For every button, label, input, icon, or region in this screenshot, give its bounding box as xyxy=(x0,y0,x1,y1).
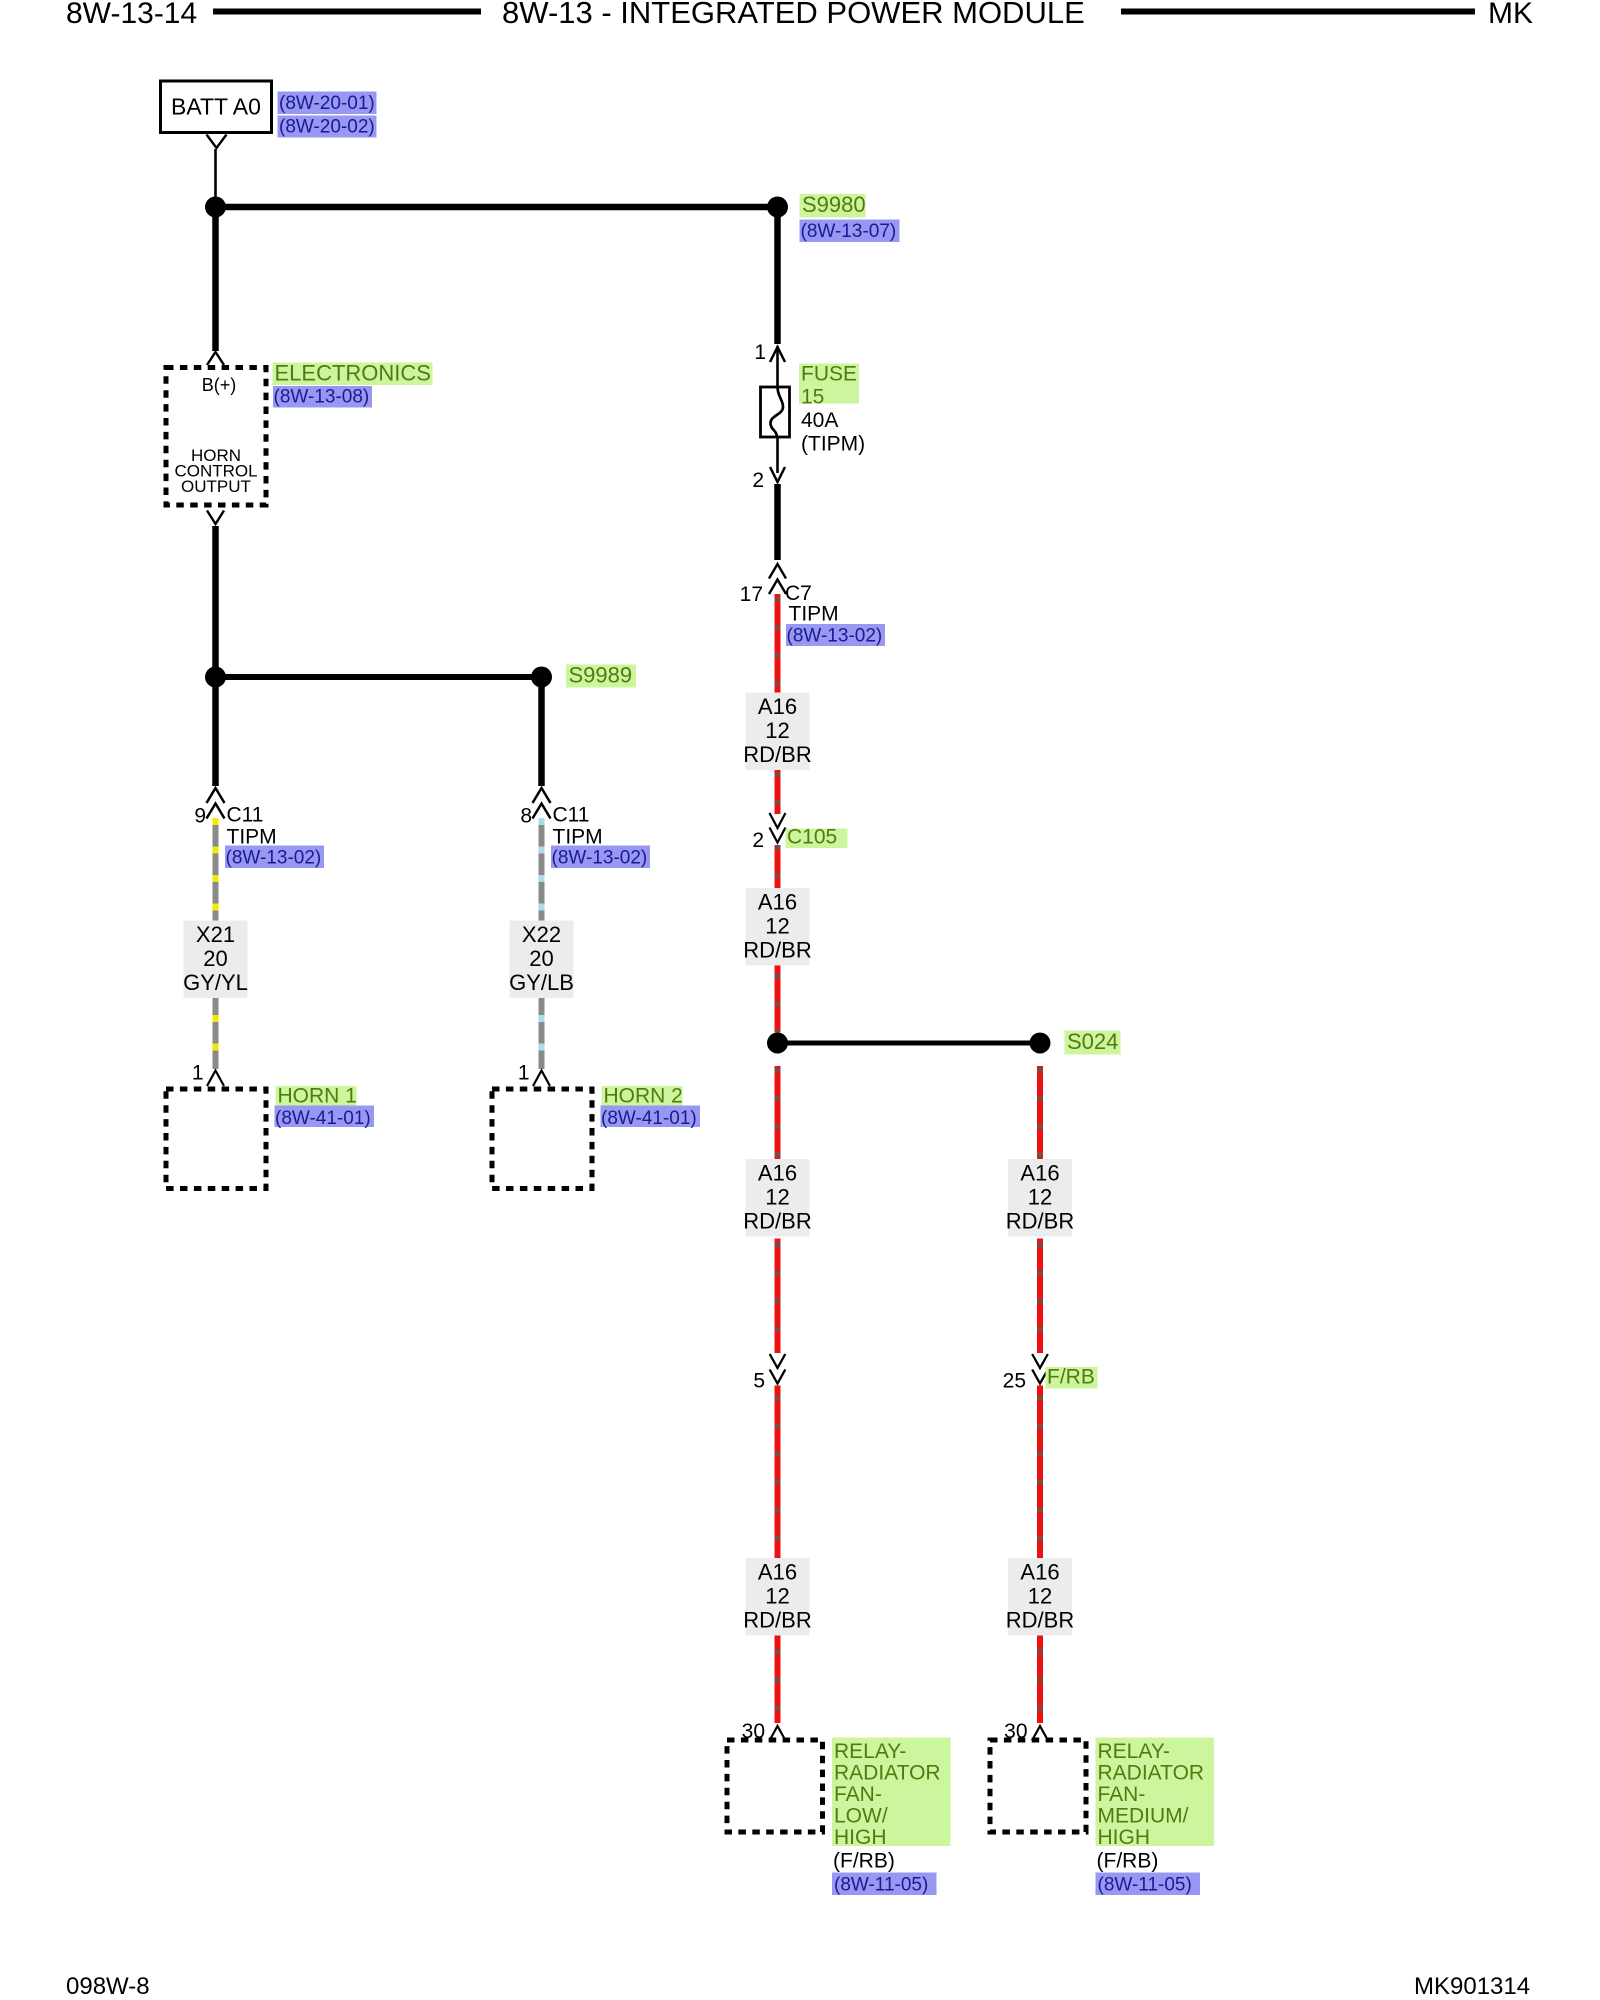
svg-text:A16: A16 xyxy=(758,694,797,719)
svg-text:(8W-41-01): (8W-41-01) xyxy=(601,1108,697,1129)
svg-text:A16: A16 xyxy=(1020,1560,1059,1585)
svg-text:8W-13-14: 8W-13-14 xyxy=(66,0,197,30)
svg-text:HORN 2: HORN 2 xyxy=(604,1085,683,1108)
svg-text:RD/BR: RD/BR xyxy=(743,1608,811,1633)
svg-text:12: 12 xyxy=(765,914,789,939)
svg-text:A16: A16 xyxy=(758,890,797,915)
svg-text:RD/BR: RD/BR xyxy=(1006,1209,1074,1234)
svg-text:12: 12 xyxy=(1028,1185,1052,1210)
svg-text:(F/RB): (F/RB) xyxy=(833,1850,895,1873)
svg-text:20: 20 xyxy=(529,946,553,971)
svg-text:(8W-11-05): (8W-11-05) xyxy=(834,1875,928,1896)
svg-text:F/RB: F/RB xyxy=(1047,1366,1095,1389)
svg-text:(8W-13-02): (8W-13-02) xyxy=(787,626,883,647)
svg-text:40A: 40A xyxy=(801,409,838,432)
svg-text:8W-13 - INTEGRATED POWER MODUL: 8W-13 - INTEGRATED POWER MODULE xyxy=(502,0,1085,30)
svg-text:LOW/: LOW/ xyxy=(834,1805,888,1828)
svg-text:1: 1 xyxy=(518,1062,530,1085)
svg-text:HIGH: HIGH xyxy=(834,1826,887,1849)
svg-text:(TIPM): (TIPM) xyxy=(801,433,865,456)
svg-text:20: 20 xyxy=(203,946,227,971)
svg-text:X22: X22 xyxy=(522,922,561,947)
svg-text:A16: A16 xyxy=(1020,1161,1059,1186)
svg-text:17: 17 xyxy=(740,583,763,606)
svg-text:2: 2 xyxy=(752,829,764,852)
svg-text:15: 15 xyxy=(801,386,824,409)
svg-text:12: 12 xyxy=(1028,1584,1052,1609)
svg-text:X21: X21 xyxy=(196,922,235,947)
svg-text:TIPM: TIPM xyxy=(553,826,603,849)
svg-text:RD/BR: RD/BR xyxy=(743,742,811,767)
svg-text:MK: MK xyxy=(1488,0,1533,30)
svg-text:1: 1 xyxy=(192,1062,204,1085)
svg-text:C105: C105 xyxy=(787,826,837,849)
svg-text:098W-8: 098W-8 xyxy=(66,1973,150,2000)
svg-text:A16: A16 xyxy=(758,1560,797,1585)
svg-text:RADIATOR: RADIATOR xyxy=(1098,1762,1205,1785)
svg-text:ELECTRONICS: ELECTRONICS xyxy=(275,361,431,386)
svg-text:C11: C11 xyxy=(553,804,590,827)
svg-text:(8W-11-05): (8W-11-05) xyxy=(1098,1875,1192,1896)
svg-text:TIPM: TIPM xyxy=(227,826,277,849)
svg-text:MEDIUM/: MEDIUM/ xyxy=(1098,1805,1189,1828)
svg-text:HORN 1: HORN 1 xyxy=(278,1085,357,1108)
svg-text:FAN-: FAN- xyxy=(1098,1783,1146,1806)
svg-text:MK901314: MK901314 xyxy=(1414,1973,1530,2000)
svg-text:RD/BR: RD/BR xyxy=(743,938,811,963)
svg-text:S9989: S9989 xyxy=(569,663,633,688)
svg-text:S9980: S9980 xyxy=(802,192,866,217)
svg-text:2: 2 xyxy=(752,469,764,492)
svg-text:RELAY-: RELAY- xyxy=(1098,1740,1170,1763)
svg-text:B(+): B(+) xyxy=(202,375,237,395)
svg-text:(8W-13-02): (8W-13-02) xyxy=(552,848,648,869)
svg-text:TIPM: TIPM xyxy=(789,603,839,626)
svg-text:(8W-41-01): (8W-41-01) xyxy=(275,1108,371,1129)
svg-text:9: 9 xyxy=(194,805,206,828)
svg-text:RADIATOR: RADIATOR xyxy=(834,1762,941,1785)
svg-text:BATT A0: BATT A0 xyxy=(171,94,261,120)
svg-text:1: 1 xyxy=(754,341,766,364)
svg-text:(8W-20-01): (8W-20-01) xyxy=(279,93,375,114)
svg-text:A16: A16 xyxy=(758,1161,797,1186)
svg-text:RD/BR: RD/BR xyxy=(743,1209,811,1234)
svg-text:C11: C11 xyxy=(227,804,264,827)
svg-text:(8W-13-02): (8W-13-02) xyxy=(226,848,322,869)
svg-text:FAN-: FAN- xyxy=(834,1783,882,1806)
svg-text:GY/YL: GY/YL xyxy=(183,970,248,995)
svg-text:(8W-20-02): (8W-20-02) xyxy=(279,117,375,138)
svg-text:HIGH: HIGH xyxy=(1098,1826,1151,1849)
svg-text:OUTPUT: OUTPUT xyxy=(181,477,251,496)
svg-text:5: 5 xyxy=(753,1370,765,1393)
svg-text:S024: S024 xyxy=(1067,1029,1118,1054)
svg-text:(8W-13-07): (8W-13-07) xyxy=(801,221,897,242)
svg-text:(8W-13-08): (8W-13-08) xyxy=(274,387,370,408)
svg-text:8: 8 xyxy=(520,805,532,828)
svg-text:FUSE: FUSE xyxy=(801,363,857,386)
svg-text:GY/LB: GY/LB xyxy=(509,970,574,995)
svg-text:RD/BR: RD/BR xyxy=(1006,1608,1074,1633)
svg-text:25: 25 xyxy=(1003,1370,1026,1393)
svg-text:12: 12 xyxy=(765,718,789,743)
svg-text:RELAY-: RELAY- xyxy=(834,1740,906,1763)
svg-text:12: 12 xyxy=(765,1584,789,1609)
svg-text:(F/RB): (F/RB) xyxy=(1097,1850,1159,1873)
svg-text:12: 12 xyxy=(765,1185,789,1210)
